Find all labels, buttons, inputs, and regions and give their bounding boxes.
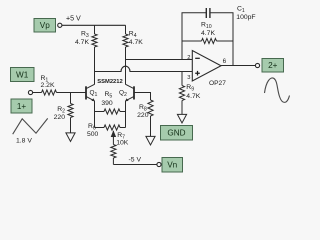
ground arrow under R8	[146, 136, 155, 145]
wire Q2 emitter down	[125, 101, 127, 128]
W1 terminal	[11, 68, 35, 95]
svg-text:1+: 1+	[17, 102, 27, 111]
ground arrow under R2	[66, 133, 75, 142]
-5V rail wire to Vn	[113, 157, 157, 165]
svg-text:4.7K: 4.7K	[129, 39, 143, 46]
op-amp U1 OP27	[187, 51, 226, 88]
Vn terminal	[157, 158, 183, 173]
svg-text:220: 220	[54, 114, 66, 121]
resistor R10 4.7K	[182, 22, 233, 44]
svg-text:OP27: OP27	[209, 80, 226, 87]
svg-text:-5 V: -5 V	[129, 157, 142, 164]
svg-text:4.7K: 4.7K	[75, 39, 89, 46]
svg-text:6: 6	[223, 58, 227, 65]
resistor R5 390	[95, 91, 126, 114]
svg-text:SSM2212: SSM2212	[97, 79, 122, 85]
svg-text:3: 3	[187, 75, 190, 81]
svg-text:220: 220	[137, 112, 149, 119]
wire Q1 emitter down	[94, 101, 96, 128]
svg-text:2: 2	[187, 55, 190, 61]
transistor Q1	[86, 84, 97, 101]
arrow into GND box	[177, 114, 186, 123]
transistor Q2	[119, 84, 134, 101]
svg-text:4.7K: 4.7K	[201, 30, 215, 37]
2+ scope terminal	[255, 59, 283, 73]
svg-text:4.7K: 4.7K	[186, 93, 200, 100]
resistor R4 4.7K	[123, 25, 143, 84]
svg-text:Vn: Vn	[167, 161, 177, 170]
svg-text:2.2K: 2.2K	[41, 82, 55, 89]
1+ scope terminal	[11, 99, 32, 113]
resistor R8 220	[134, 93, 153, 137]
output wire pin 6	[221, 65, 255, 67]
svg-text:W1: W1	[16, 70, 29, 79]
svg-text:100pF: 100pF	[236, 14, 255, 21]
resistor R7 10K	[111, 132, 129, 165]
svg-text:2+: 2+	[268, 61, 278, 70]
svg-text:+5 V: +5 V	[66, 15, 81, 23]
sine wave annotation	[265, 78, 290, 102]
wire Q2 collector to op-amp pin 2	[126, 59, 193, 61]
resistor R1 2.2K	[33, 75, 86, 95]
svg-text:10K: 10K	[116, 140, 129, 147]
capacitor C1 100pF	[206, 5, 255, 21]
potentiometer R6 500	[87, 123, 126, 138]
resistor R2 220	[54, 93, 73, 133]
resistor R3 4.7K	[75, 25, 97, 84]
resistor R9 4.7K	[179, 72, 200, 115]
R6 wiper arrow	[111, 130, 116, 137]
svg-text:GND: GND	[167, 129, 185, 138]
GND terminal	[161, 126, 193, 141]
svg-text:390: 390	[101, 100, 113, 107]
svg-text:Vp: Vp	[40, 21, 50, 30]
feedback network wires	[182, 13, 233, 66]
svg-text:500: 500	[87, 131, 99, 138]
+5V supply rail	[62, 15, 126, 26]
triangle wave annotation with 1.8 V label	[13, 118, 48, 144]
svg-text:1.8 V: 1.8 V	[16, 138, 32, 145]
Vp terminal	[34, 19, 62, 33]
wire Q1 collector to op-amp pin 3 (hop over Q2 collector)	[95, 66, 193, 71]
